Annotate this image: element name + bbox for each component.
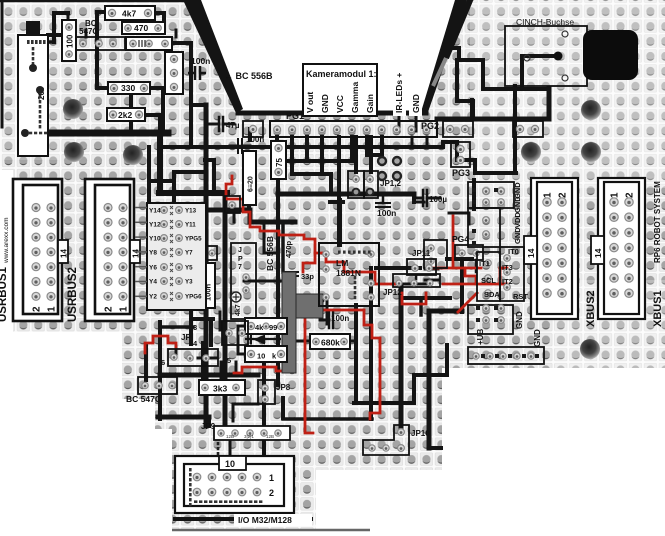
svg-text:3k3: 3k3 [213, 384, 227, 394]
svg-text:33p: 33p [301, 272, 314, 281]
svg-text:14: 14 [60, 249, 69, 258]
svg-text:Kameramodul 1:: Kameramodul 1: [306, 69, 377, 79]
svg-text:4k: 4k [255, 323, 264, 332]
svg-text:I/O M32/M128: I/O M32/M128 [238, 515, 292, 525]
svg-text:XBUS2: XBUS2 [585, 290, 597, 327]
svg-text:GND: GND [320, 94, 330, 113]
svg-text:Y4: Y4 [149, 279, 157, 286]
svg-text:470p: 470p [284, 240, 293, 258]
svg-text:Y3: Y3 [185, 279, 193, 286]
svg-text:YPG5: YPG5 [185, 236, 202, 243]
svg-text:10: 10 [225, 459, 235, 469]
svg-text:J: J [238, 247, 242, 254]
svg-text:Y8: Y8 [149, 250, 157, 257]
svg-text:100n: 100n [331, 314, 349, 323]
svg-text:LM: LM [336, 258, 348, 268]
svg-text:YPG6: YPG6 [185, 294, 202, 301]
svg-text:www.arexx.com: www.arexx.com [3, 217, 10, 264]
svg-text:RP6 ROBOT SYSTEM: RP6 ROBOT SYSTEM [653, 181, 662, 263]
svg-text:Y13: Y13 [185, 208, 197, 215]
svg-text:← BC 556B: ← BC 556B [224, 71, 273, 81]
svg-text:Y5: Y5 [185, 265, 193, 272]
svg-text:2: 2 [32, 306, 43, 312]
svg-text:100n: 100n [246, 135, 264, 144]
svg-text:1881N: 1881N [336, 268, 361, 278]
svg-text:14: 14 [526, 248, 536, 258]
svg-text:IR-LEDs +: IR-LEDs + [394, 73, 404, 113]
svg-text:PG2: PG2 [421, 121, 439, 131]
svg-text:12B: 12B [266, 434, 274, 439]
svg-text:JP9: JP9 [201, 422, 216, 431]
svg-text:IT1: IT1 [479, 259, 490, 268]
svg-text:JP: JP [181, 333, 191, 342]
svg-text:Y14: Y14 [149, 208, 161, 215]
svg-text:100n: 100n [377, 208, 396, 218]
svg-text:SCL: SCL [481, 276, 496, 285]
svg-text:CINCH-Buchse: CINCH-Buchse [516, 17, 574, 27]
svg-text:330: 330 [121, 83, 135, 93]
svg-text:99: 99 [269, 323, 277, 332]
svg-text:JP11: JP11 [412, 249, 431, 258]
svg-text:GND: GND [411, 94, 421, 113]
svg-text:680k: 680k [321, 338, 340, 348]
svg-text:JP10: JP10 [411, 429, 430, 438]
svg-text:VDD: VDD [513, 212, 522, 228]
svg-text:5: 5 [227, 356, 231, 365]
svg-text:Y7: Y7 [185, 250, 193, 257]
svg-text:PG4: PG4 [452, 234, 469, 244]
svg-text:3: 3 [193, 323, 197, 332]
svg-text:7: 7 [238, 264, 242, 271]
svg-text:2k2: 2k2 [118, 110, 132, 120]
svg-text:JP12: JP12 [383, 288, 402, 297]
svg-text:1: 1 [119, 306, 130, 312]
svg-text:IT0: IT0 [508, 247, 519, 256]
svg-text:GND: GND [513, 227, 522, 244]
svg-text:1: 1 [543, 192, 554, 198]
svg-text:GND: GND [515, 311, 524, 329]
svg-text:PG1: PG1 [286, 111, 304, 121]
svg-text:VCC: VCC [335, 95, 345, 113]
svg-text:10: 10 [257, 352, 265, 361]
svg-text:100n: 100n [191, 56, 210, 66]
svg-text:12B: 12B [226, 434, 234, 439]
svg-text:6≡20: 6≡20 [248, 176, 255, 192]
svg-text:2: 2 [269, 488, 274, 498]
svg-text:+UB: +UB [476, 329, 485, 345]
svg-text:14: 14 [593, 248, 603, 258]
svg-text:2: 2 [104, 306, 115, 312]
svg-text:Gain: Gain [365, 94, 375, 113]
svg-text:Y10: Y10 [149, 236, 161, 243]
svg-text:47µ: 47µ [226, 121, 240, 130]
svg-text:USRBUS2: USRBUS2 [67, 267, 79, 322]
svg-text:1: 1 [47, 306, 58, 312]
svg-text:547C: 547C [79, 27, 98, 36]
svg-text:1: 1 [269, 473, 274, 483]
svg-text:Y12: Y12 [149, 222, 161, 229]
svg-text:USRBUS1: USRBUS1 [0, 266, 9, 322]
svg-text:2: 2 [625, 192, 636, 198]
svg-text:PG3: PG3 [452, 168, 470, 178]
svg-text:470: 470 [134, 23, 148, 33]
svg-text:BC 556B: BC 556B [265, 236, 275, 271]
svg-text:IT3: IT3 [502, 263, 513, 272]
svg-text:RST: RST [513, 292, 528, 301]
svg-text:100µ: 100µ [429, 195, 447, 204]
svg-text:4k7: 4k7 [122, 9, 136, 19]
svg-text:3|2|1: 3|2|1 [244, 434, 254, 439]
svg-text:6: 6 [161, 358, 165, 367]
svg-text:SDA: SDA [484, 290, 500, 299]
svg-text:P: P [238, 256, 243, 263]
svg-text:IT2: IT2 [502, 277, 513, 286]
svg-text:14: 14 [132, 249, 141, 258]
svg-text:GND: GND [513, 196, 522, 213]
svg-text:Y11: Y11 [185, 222, 196, 229]
svg-text:2: 2 [558, 192, 569, 198]
svg-text:100: 100 [66, 34, 75, 48]
svg-text:Gamma: Gamma [350, 82, 360, 113]
svg-text:BC 547C: BC 547C [126, 394, 161, 404]
svg-text:V out: V out [305, 92, 315, 113]
svg-text:4k7: 4k7 [235, 304, 242, 316]
svg-text:Y6: Y6 [149, 265, 157, 272]
svg-text:1: 1 [610, 192, 621, 198]
svg-text:JP8: JP8 [276, 383, 291, 392]
svg-text:GND: GND [533, 329, 542, 347]
svg-text:75: 75 [275, 158, 284, 167]
svg-text:Y2: Y2 [149, 294, 157, 301]
svg-text:XBUS1: XBUS1 [652, 290, 664, 327]
